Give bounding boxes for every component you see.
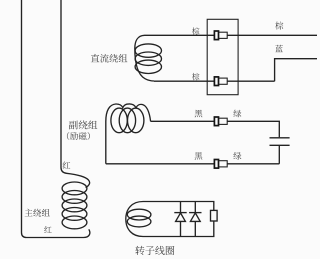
capacitor C [270, 138, 290, 164]
wire: black/green wire from auxiliary winding to capacitor [151, 121, 280, 137]
label 红 red (bottom) [44, 226, 51, 233]
label 绿 green (upper wire) [233, 110, 241, 118]
label 黑 black (lower wire) [195, 152, 203, 160]
connector block (plug housing) [207, 19, 238, 94]
inductor: main winding (主绕组) coil [62, 182, 87, 229]
diode D1 [174, 202, 186, 237]
inductor: auxiliary winding 副绕组(励磁) coil [106, 104, 151, 164]
label （励磁） excitation [67, 132, 90, 140]
inductor: rotor coil (转子线圈) loop [126, 202, 214, 237]
wire: top brown wire (to right edge) [145, 34, 318, 36]
connector terminal 2 (bottom brown wire) [214, 77, 227, 86]
label 棕 brown (left of connector, top) [192, 27, 200, 34]
label 副绕组 auxiliary winding [69, 120, 97, 129]
wire: left supply line to main winding bottom [22, 0, 90, 238]
label 棕 brown (right edge) [275, 22, 283, 30]
wire: bottom brown wire from DC winding through connector to blue riser [154, 80, 275, 82]
label 绿 green (lower wire) [233, 152, 241, 160]
connector terminal 1 (top brown wire) [214, 31, 227, 40]
label 直流绕组 (DC winding) [91, 54, 128, 63]
label 棕 brown (left of connector, bottom) [192, 73, 200, 80]
resistor on rotor loop right edge [211, 210, 218, 221]
wire: blue wire riser and run to right edge [275, 59, 317, 81]
label 黑 black (upper wire) [195, 110, 203, 118]
connector terminal 4 (lower black-green wire) [214, 160, 227, 169]
wire: lower black/green wire from auxiliary winding to capacitor bottom [106, 163, 279, 165]
label 红 red (top) [63, 162, 71, 169]
label 主绕组 main winding [25, 209, 50, 217]
diode D2 [189, 202, 201, 237]
inductor: DC winding (直流绕组) coil [135, 35, 162, 81]
connector terminal 3 (upper black-green wire) [214, 117, 227, 126]
label 蓝 blue [275, 45, 283, 52]
label 转子线圈 rotor coil [135, 246, 174, 255]
wire: second supply line into main winding top [61, 0, 90, 188]
